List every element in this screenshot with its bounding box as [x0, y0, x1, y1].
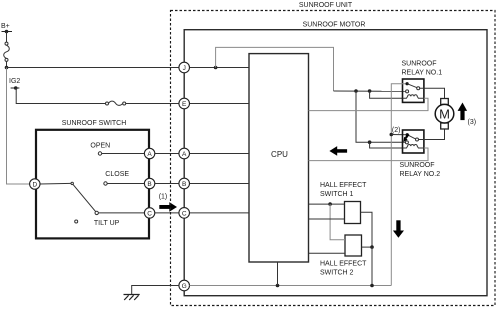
wire relay2 coil return to CPU: [309, 148, 429, 161]
blade arm to TILT UP: [73, 184, 96, 211]
sunroof switch box: [36, 130, 149, 239]
svg-text:(3): (3): [468, 119, 477, 126]
arrow (3) up: [458, 103, 468, 121]
wire E to CPU: [190, 103, 250, 105]
wire relay1 coil return to CPU: [309, 98, 429, 110]
svg-text:B: B: [182, 181, 186, 188]
terminal C (unit): [179, 208, 190, 219]
svg-text:G: G: [182, 283, 187, 290]
relay U1 NC wire to ground bus: [391, 84, 407, 286]
relay U2 NO contact: [405, 141, 408, 144]
terminal D: [30, 179, 40, 189]
wire CLOSE to B: [107, 183, 144, 185]
node junction bus 1: [354, 89, 358, 93]
svg-text:HALL EFFECT: HALL EFFECT: [320, 182, 367, 189]
arrow (2) left bold: [329, 146, 347, 156]
svg-text:SUNROOF MOTOR: SUNROOF MOTOR: [303, 21, 366, 28]
node junction hall grounds: [370, 245, 374, 249]
svg-text:SUNROOF UNIT: SUNROOF UNIT: [299, 2, 353, 9]
wire G to ground bus: [190, 285, 392, 287]
CPU box: [249, 54, 309, 262]
relay U2 actuate arrow: [403, 134, 409, 142]
node junction relay2 branch: [368, 140, 372, 144]
wire hall1 ground: [361, 212, 373, 247]
relay U2 box: [403, 130, 424, 153]
wire G to chassis ground: [132, 286, 179, 295]
contact TILT UP: [95, 211, 98, 214]
node junction hall ground on bus: [370, 284, 374, 288]
svg-text:(2): (2): [392, 127, 401, 134]
wire CPU to ground bus: [277, 262, 279, 286]
wire hall2 ground: [362, 246, 373, 248]
arrow down bold: [393, 220, 404, 237]
battery terminal B+: [2, 30, 13, 34]
svg-text:CLOSE: CLOSE: [105, 171, 129, 178]
svg-text:TILT UP: TILT UP: [94, 220, 120, 227]
motor M1: [435, 99, 454, 130]
switch blade from D: [40, 182, 71, 185]
hall effect switch 1 box: [345, 202, 361, 224]
relay U1 NO contact: [406, 90, 409, 93]
wire hall2 signal to CPU: [309, 252, 346, 254]
wire: [6, 61, 8, 67]
svg-text:SUNROOF SWITCH: SUNROOF SWITCH: [62, 120, 127, 127]
svg-text:J: J: [183, 65, 186, 72]
svg-text:SUNROOF: SUNROOF: [400, 162, 435, 169]
arrow (1): [159, 202, 177, 212]
wire C to CPU: [190, 212, 250, 214]
relay U1 coil: [403, 95, 424, 99]
wire relay2 to motor: [419, 129, 445, 140]
contact neutral: [75, 220, 78, 223]
svg-text:CPU: CPU: [271, 150, 288, 159]
wire A to CPU: [190, 153, 250, 155]
svg-text:M: M: [439, 106, 450, 121]
solid box SUNROOF MOTOR: [184, 30, 487, 296]
terminal IG2: [11, 86, 20, 90]
svg-text:A: A: [182, 151, 187, 158]
svg-text:IG2: IG2: [9, 78, 20, 85]
svg-text:B+: B+: [1, 23, 10, 30]
node junction ground to relay2: [390, 133, 394, 137]
node junction B+: [5, 66, 9, 70]
wire B+ feed to relays: [216, 47, 334, 91]
node junction hall supply: [328, 202, 332, 206]
wire to relay2 contact: [356, 91, 405, 142]
relay U2 blade: [407, 135, 416, 139]
node junction CPU ground: [276, 284, 280, 288]
svg-text:SWITCH 2: SWITCH 2: [320, 269, 354, 276]
svg-text:(1): (1): [159, 193, 168, 200]
dashed box SUNROOF UNIT: [171, 11, 496, 306]
contact OPEN: [98, 152, 101, 155]
wire B+ down to D: [7, 68, 30, 185]
wire hall1 signal to CPU: [309, 218, 345, 220]
node junction bus 2: [368, 89, 372, 93]
svg-text:C: C: [147, 210, 152, 217]
wire IG2 to connector: [16, 88, 105, 104]
svg-text:A: A: [147, 151, 152, 158]
wire to relay1 coil: [370, 91, 403, 98]
terminal A (unit): [179, 148, 190, 159]
wire relay1 to motor: [420, 88, 445, 98]
wire ground bus to relay2 common: [391, 134, 407, 136]
relay U2 coil: [403, 145, 424, 149]
svg-text:RELAY NO.2: RELAY NO.2: [400, 171, 441, 178]
terminal B (switch): [144, 178, 154, 188]
wire B+ to J: [7, 67, 179, 69]
wire connector to E: [126, 103, 179, 105]
wire B to CPU: [190, 183, 250, 185]
wire J to CPU: [190, 67, 250, 69]
svg-text:B: B: [147, 181, 151, 188]
wire A to A: [155, 153, 179, 155]
terminal E: [179, 98, 190, 109]
wire CPU supply to halls: [309, 203, 345, 205]
relay U1 box: [403, 79, 424, 102]
svg-text:RELAY NO.1: RELAY NO.1: [402, 69, 443, 76]
wire C to C: [155, 212, 179, 214]
relay U2 throw contact: [416, 138, 419, 141]
hall effect switch 2 box: [345, 235, 362, 256]
relay U2 common pin: [406, 133, 409, 136]
wire relay feed bus: [334, 90, 406, 92]
svg-text:SWITCH 1: SWITCH 1: [320, 191, 354, 198]
relay U1 common pin: [406, 82, 409, 85]
svg-text:D: D: [32, 181, 37, 188]
relay U1 blade: [407, 84, 417, 88]
blade pivot: [71, 182, 73, 184]
svg-text:E: E: [182, 101, 187, 108]
wire B to B: [155, 183, 179, 185]
wire supply branch to hall 2: [330, 204, 345, 240]
contact CLOSE: [104, 182, 107, 185]
svg-text:OPEN: OPEN: [90, 142, 110, 149]
terminal A (switch): [144, 148, 154, 158]
node junction on J wire: [214, 66, 218, 70]
terminal G: [179, 280, 190, 291]
inline connector on IG2 wire: [106, 101, 126, 105]
ground: [124, 295, 140, 301]
wire hall ground drop: [371, 247, 373, 285]
wire to relay2 coil: [370, 142, 403, 148]
terminal B (unit): [179, 178, 190, 189]
relay U1 throw contact: [417, 87, 420, 90]
svg-text:C: C: [182, 210, 187, 217]
fusible link F1: [4, 42, 10, 61]
terminal C (switch): [144, 208, 154, 218]
wire TILT UP to C: [98, 212, 144, 214]
svg-text:SUNROOF: SUNROOF: [402, 61, 437, 68]
wire: [6, 32, 8, 43]
svg-text:HALL EFFECT: HALL EFFECT: [320, 261, 367, 268]
terminal J: [179, 62, 190, 73]
wire OPEN to A: [102, 153, 145, 155]
